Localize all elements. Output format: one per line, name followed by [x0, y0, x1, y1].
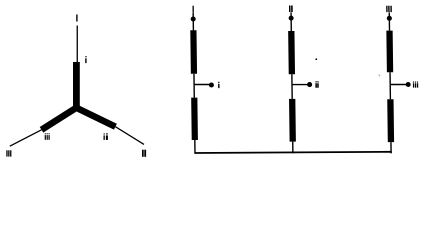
winding (branch 1 upper coil)	[190, 30, 197, 73]
winding (branch 1 lower coil)	[191, 98, 198, 140]
terminal dot ii	[307, 82, 312, 87]
terminal dot I	[191, 16, 196, 21]
wire (branch 1 middle lead)	[193, 74, 195, 98]
terminal dot i	[209, 82, 214, 87]
node label I (branch 1 top terminal)	[192, 6, 193, 12]
stray speck	[315, 59, 317, 61]
node label I (left wye top terminal)	[76, 15, 77, 22]
node label iii (branch 3 tap terminal)	[413, 82, 418, 88]
winding (branch 3 upper coil)	[386, 31, 393, 73]
wire (branch 3 middle lead)	[389, 72, 391, 99]
terminal dot iii	[406, 82, 411, 87]
wire (branch 2 bottom lead)	[292, 142, 294, 154]
wire (bottom bus connecting branches)	[194, 152, 391, 153]
value label ii (below right coil)	[104, 133, 108, 140]
winding i (wye phase I coil, vertical thick bar)	[73, 62, 80, 109]
terminal dot II	[289, 16, 294, 21]
wire (branch 3 top lead)	[389, 13, 391, 31]
wire (branch 2 tap)	[292, 84, 310, 85]
winding iii (wye phase III coil, lower-left thick bar)	[42, 108, 77, 130]
wire (branch 2 middle lead)	[291, 74, 293, 99]
value label i (beside top coil)	[85, 56, 86, 63]
node label III (left wye lower-left terminal)	[6, 150, 11, 156]
wire (branch 2 top lead)	[290, 13, 292, 32]
winding (branch 3 lower coil)	[387, 99, 394, 142]
winding (branch 2 upper coil)	[288, 31, 295, 74]
winding (branch 2 lower coil)	[289, 99, 296, 142]
wire (branch 1 top lead)	[192, 12, 194, 30]
wire (branch 3 bottom lead)	[390, 142, 392, 153]
wire (branch 3 tap)	[390, 84, 408, 85]
node label i (branch 1 tap terminal)	[218, 82, 219, 88]
wire (lower-right lead of wye)	[115, 127, 144, 145]
node label II (left wye lower-right terminal)	[142, 150, 146, 157]
wire (lower-left lead of wye)	[10, 130, 42, 146]
stray speck (left of branch 3 middle lead)	[379, 75, 381, 77]
winding ii (wye phase II coil, lower-right thick bar)	[76, 108, 115, 127]
value label iii (below left coil)	[45, 133, 50, 140]
node label III (branch 3 top terminal)	[386, 6, 392, 12]
wire (top lead of wye)	[77, 26, 78, 63]
wire (branch 1 tap)	[194, 84, 211, 85]
wire (branch 1 bottom lead)	[194, 140, 196, 153]
node label ii (branch 2 tap terminal)	[315, 81, 318, 87]
terminal dot III	[387, 16, 392, 21]
node label II (branch 2 top terminal)	[289, 6, 293, 13]
